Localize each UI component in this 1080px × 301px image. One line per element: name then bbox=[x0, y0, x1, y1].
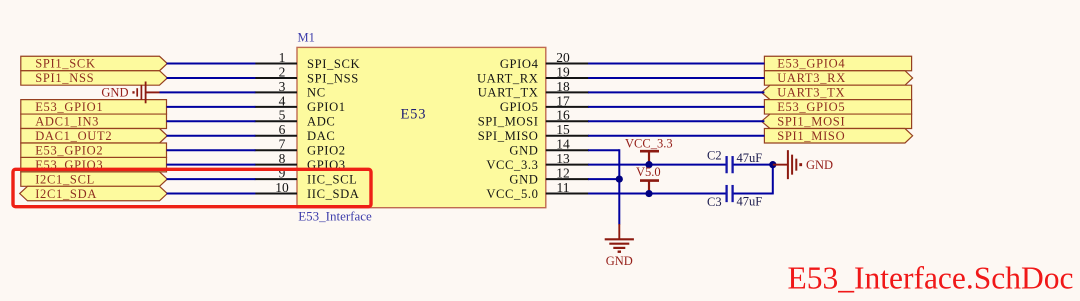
svg-text:UART3_RX: UART3_RX bbox=[777, 71, 846, 85]
svg-text:GND: GND bbox=[509, 144, 538, 158]
svg-text:SPI1_NSS: SPI1_NSS bbox=[35, 71, 94, 85]
svg-text:VCC_3.3: VCC_3.3 bbox=[486, 158, 538, 172]
svg-text:E53_GPIO5: E53_GPIO5 bbox=[777, 100, 845, 114]
svg-text:GPIO5: GPIO5 bbox=[500, 100, 539, 114]
wire ADC1_IN3 to pin bbox=[167, 120, 256, 122]
svg-text:13: 13 bbox=[556, 151, 570, 166]
wire E53_GPIO3 to pin bbox=[167, 164, 256, 166]
svg-text:SPI1_MOSI: SPI1_MOSI bbox=[777, 115, 845, 129]
svg-text:SPI_NSS: SPI_NSS bbox=[307, 71, 359, 85]
port DAC1_OUT2 bbox=[21, 129, 168, 143]
port UART3_RX bbox=[764, 71, 912, 85]
svg-text:GPIO1: GPIO1 bbox=[307, 100, 346, 114]
junction pin12/GND drop bbox=[616, 176, 623, 183]
pin 12 (GND) : pin wire, number, name bbox=[509, 166, 588, 187]
wire I2C1_SDA to pin bbox=[167, 193, 256, 195]
pin 15 (SPI_MISO) : pin wire, number, name bbox=[478, 122, 589, 143]
svg-text:C2: C2 bbox=[707, 149, 722, 163]
svg-text:C3: C3 bbox=[707, 195, 722, 209]
pin 2 (SPI_NSS) : pin wire, number, name bbox=[255, 64, 359, 85]
pin 10 (IIC_SDA) : pin wire, number, name bbox=[255, 180, 360, 201]
wire GND to pin 3 bbox=[160, 91, 256, 93]
highlight box around I2C1_SCL / I2C1_SDA bbox=[13, 169, 371, 206]
svg-text:12: 12 bbox=[556, 166, 570, 181]
svg-text:47uF: 47uF bbox=[737, 195, 763, 209]
port UART3_TX bbox=[762, 85, 912, 99]
wire pin to port SPI1_MISO bbox=[588, 135, 764, 137]
ground symbol (right of C2) bbox=[773, 150, 833, 179]
pin 14 (GND) : pin wire, number, name bbox=[509, 137, 588, 158]
pin 11 (VCC_5.0) : pin wire, number, name bbox=[486, 180, 589, 201]
svg-text:GPIO2: GPIO2 bbox=[307, 144, 346, 158]
svg-text:GND: GND bbox=[606, 254, 633, 268]
pin 4 (GPIO1) : pin wire, number, name bbox=[255, 93, 346, 114]
svg-text:4: 4 bbox=[279, 93, 286, 108]
pin 19 (UART_RX) : pin wire, number, name bbox=[477, 64, 589, 85]
pin 3 (NC) : pin wire, number, name bbox=[255, 79, 326, 100]
svg-text:18: 18 bbox=[556, 79, 570, 94]
svg-text:VCC_5.0: VCC_5.0 bbox=[486, 187, 538, 201]
svg-text:10: 10 bbox=[275, 180, 289, 195]
svg-text:E53_GPIO2: E53_GPIO2 bbox=[35, 143, 103, 157]
pin 1 (SPI_SCK) : pin wire, number, name bbox=[255, 50, 361, 71]
svg-text:UART_TX: UART_TX bbox=[478, 86, 539, 100]
pin 7 (GPIO2) : pin wire, number, name bbox=[255, 137, 346, 158]
svg-text:V5.0: V5.0 bbox=[636, 165, 661, 179]
svg-text:17: 17 bbox=[556, 93, 570, 108]
wire pin to port SPI1_MOSI bbox=[588, 120, 764, 122]
wire C2 right lead bbox=[733, 164, 773, 166]
svg-text:E53_GPIO4: E53_GPIO4 bbox=[777, 57, 845, 71]
port I2C1_SDA bbox=[20, 186, 168, 200]
svg-text:E53_Interface.SchDoc: E53_Interface.SchDoc bbox=[788, 261, 1074, 296]
wire right vertical joining C2/C3 bbox=[772, 165, 774, 195]
wire pin to port E53_GPIO5 bbox=[588, 106, 764, 108]
svg-text:NC: NC bbox=[307, 86, 326, 100]
power symbol VCC_3.3 (bar) bbox=[625, 137, 673, 165]
port SPI1_SCK bbox=[21, 56, 168, 70]
svg-text:I2C1_SDA: I2C1_SDA bbox=[35, 187, 97, 201]
svg-text:M1: M1 bbox=[298, 31, 315, 45]
svg-text:5: 5 bbox=[279, 108, 286, 123]
port E53_GPIO1 bbox=[21, 100, 167, 114]
capacitor C2 47uF bbox=[707, 149, 762, 174]
port E53_GPIO2 bbox=[21, 143, 167, 157]
svg-text:VCC_3.3: VCC_3.3 bbox=[625, 137, 673, 151]
pin 20 (GPIO4) : pin wire, number, name bbox=[500, 50, 589, 71]
svg-text:GND: GND bbox=[101, 86, 128, 100]
wire I2C1_SCL to pin bbox=[167, 178, 256, 180]
svg-text:2: 2 bbox=[279, 64, 286, 79]
pin 16 (SPI_MOSI) : pin wire, number, name bbox=[478, 108, 589, 129]
svg-text:8: 8 bbox=[279, 151, 286, 166]
pin 5 (ADC) : pin wire, number, name bbox=[255, 108, 336, 129]
capacitor C3 47uF bbox=[707, 185, 762, 209]
wire SPI1_SCK to pin bbox=[167, 63, 256, 65]
svg-text:DAC: DAC bbox=[307, 129, 335, 143]
wire pin to port UART3_RX bbox=[588, 77, 764, 79]
port E53_GPIO3 bbox=[21, 157, 167, 171]
svg-text:SPI1_SCK: SPI1_SCK bbox=[35, 57, 95, 71]
svg-text:UART3_TX: UART3_TX bbox=[777, 86, 845, 100]
svg-text:GND: GND bbox=[509, 172, 538, 186]
wire vertical GND drop bbox=[618, 149, 620, 224]
wire E53_GPIO2 to pin bbox=[167, 149, 256, 151]
port I2C1_SCL bbox=[21, 172, 168, 186]
svg-text:ADC1_IN3: ADC1_IN3 bbox=[35, 115, 99, 129]
svg-text:IIC_SDA: IIC_SDA bbox=[307, 187, 359, 201]
svg-text:11: 11 bbox=[557, 180, 570, 195]
wire pin 14 GND to vertical drop bbox=[588, 149, 619, 151]
svg-text:ADC: ADC bbox=[307, 115, 335, 129]
junction V5.0 / pin11 wire bbox=[645, 190, 652, 197]
svg-text:19: 19 bbox=[556, 64, 570, 79]
svg-text:15: 15 bbox=[556, 122, 570, 137]
port SPI1_MISO bbox=[764, 129, 912, 143]
junction VCC_3.3 / pin13 wire bbox=[645, 161, 652, 168]
wire pin 13 VCC_3.3 to C2 bbox=[588, 164, 727, 166]
wire pin 12 GND to vertical drop bbox=[588, 178, 619, 180]
wire E53_GPIO1 to pin bbox=[167, 106, 256, 108]
svg-text:SPI_MOSI: SPI_MOSI bbox=[478, 115, 539, 129]
junction C2-right bbox=[769, 161, 776, 168]
svg-text:DAC1_OUT2: DAC1_OUT2 bbox=[35, 129, 112, 143]
wire pin 11 VCC_5.0 to C3 bbox=[588, 193, 727, 195]
svg-text:16: 16 bbox=[556, 108, 570, 123]
svg-text:E53_Interface: E53_Interface bbox=[298, 209, 372, 224]
port E53_GPIO4 bbox=[764, 56, 911, 70]
wire pin to port E53_GPIO4 bbox=[588, 63, 764, 65]
svg-text:SPI1_MISO: SPI1_MISO bbox=[777, 129, 845, 143]
svg-text:E53: E53 bbox=[401, 107, 427, 123]
wire SPI1_NSS to pin bbox=[167, 77, 256, 79]
op-amp/module body M1 (E53 module rectangle) bbox=[297, 47, 546, 207]
port SPI1_MOSI bbox=[762, 114, 912, 128]
wire pin to port UART3_TX bbox=[588, 91, 764, 93]
ground symbol (bottom, GND net) bbox=[605, 224, 634, 268]
pin 6 (DAC) : pin wire, number, name bbox=[255, 122, 336, 143]
pin 8 (GPIO3) : pin wire, number, name bbox=[255, 151, 346, 172]
svg-text:SPI_MISO: SPI_MISO bbox=[478, 129, 539, 143]
svg-text:6: 6 bbox=[279, 122, 286, 137]
svg-text:GND: GND bbox=[806, 158, 833, 172]
svg-text:IIC_SCL: IIC_SCL bbox=[307, 172, 357, 186]
svg-text:47uF: 47uF bbox=[737, 151, 763, 165]
svg-text:3: 3 bbox=[279, 79, 286, 94]
pin 17 (GPIO5) : pin wire, number, name bbox=[500, 93, 589, 114]
svg-text:UART_RX: UART_RX bbox=[477, 71, 539, 85]
pin 18 (UART_TX) : pin wire, number, name bbox=[478, 79, 589, 100]
power symbol V5.0 (bar) bbox=[636, 165, 661, 194]
svg-text:I2C1_SCL: I2C1_SCL bbox=[35, 172, 95, 186]
svg-text:1: 1 bbox=[279, 50, 286, 65]
pin 13 (VCC_3.3) : pin wire, number, name bbox=[486, 151, 589, 172]
ground symbol (net GND, at pin 3 NC) bbox=[101, 82, 159, 104]
svg-text:7: 7 bbox=[279, 137, 286, 152]
port SPI1_NSS bbox=[21, 71, 168, 85]
svg-text:14: 14 bbox=[556, 137, 570, 152]
wire C3 right lead bbox=[733, 193, 773, 195]
svg-text:GPIO4: GPIO4 bbox=[500, 57, 539, 71]
wire DAC1_OUT2 to pin bbox=[167, 135, 256, 137]
svg-text:E53_GPIO1: E53_GPIO1 bbox=[35, 100, 103, 114]
port ADC1_IN3 bbox=[21, 114, 167, 128]
svg-text:SPI_SCK: SPI_SCK bbox=[307, 57, 360, 71]
svg-text:20: 20 bbox=[556, 50, 570, 65]
port E53_GPIO5 bbox=[764, 100, 911, 114]
pin 9 (IIC_SCL) : pin wire, number, name bbox=[255, 166, 358, 187]
